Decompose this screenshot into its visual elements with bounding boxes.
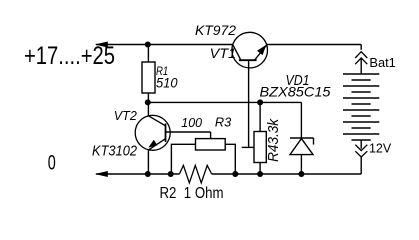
svg-text:510: 510	[156, 75, 178, 91]
resistor R4 (trimmer)	[254, 102, 266, 174]
node junction VD1 anode	[298, 171, 304, 177]
zener diode VD1	[290, 102, 314, 174]
svg-text:KT3102: KT3102	[92, 144, 137, 160]
transistor VT1	[232, 32, 268, 68]
node junction VT2 emitter	[145, 171, 151, 177]
transistor VT2	[135, 102, 170, 174]
svg-text:KT972: KT972	[195, 23, 237, 38]
wire wiper tap to R4	[242, 146, 255, 148]
wire VT2 base to R3 wiper	[166, 131, 211, 133]
wire bottom rail left	[96, 173, 179, 175]
node junction top of R1	[145, 42, 151, 48]
resistor R3 (trimmer)	[171, 132, 235, 174]
resistor R2 (zigzag)	[179, 165, 211, 183]
svg-text:R2 1 Ohm: R2 1 Ohm	[160, 185, 224, 202]
svg-text:R43.3k: R43.3k	[265, 118, 282, 162]
svg-text:VT1: VT1	[210, 46, 237, 61]
node junction R3 left / R2 left	[168, 171, 174, 177]
node junction R2 right / R3 right	[232, 171, 238, 177]
svg-text:12V: 12V	[369, 140, 392, 155]
svg-text:100: 100	[181, 116, 202, 130]
wire bottom rail right	[212, 173, 362, 175]
node junction R1 bottom / VT2 collector	[145, 99, 151, 105]
node junction R4 top	[257, 99, 263, 105]
svg-text:Bat1: Bat1	[369, 56, 395, 70]
svg-text:R3: R3	[215, 116, 231, 130]
wire top rail left	[96, 44, 233, 46]
battery Bat1 connector bottom	[355, 140, 367, 174]
wire VT1 base lead down	[248, 60, 250, 147]
svg-text:0: 0	[48, 151, 56, 175]
svg-text:BZX85C15: BZX85C15	[260, 83, 331, 99]
svg-text:+17....+25: +17....+25	[24, 42, 115, 70]
node 0 terminal arrow	[95, 171, 108, 177]
wire top rail right	[267, 44, 362, 46]
battery Bat1 plates	[343, 74, 379, 140]
resistor R1	[147, 45, 149, 63]
battery Bat1 connector top	[355, 45, 367, 75]
node +input terminal arrow	[95, 42, 108, 48]
node junction R4 bottom	[257, 171, 263, 177]
svg-text:VT2: VT2	[114, 108, 138, 123]
wire middle rail	[148, 101, 302, 103]
